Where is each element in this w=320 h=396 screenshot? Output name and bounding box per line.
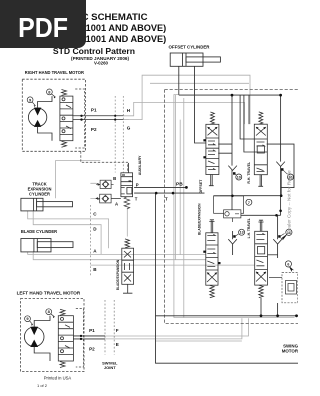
plunger above xyxy=(209,220,214,233)
svg-text:V-0260: V-0260 xyxy=(94,61,108,66)
wire rh feed vertical xyxy=(244,95,254,152)
stem below xyxy=(209,175,214,186)
wire crossover left x232 xyxy=(231,95,233,215)
node swivel joint mid line xyxy=(89,205,91,276)
node dot gallery right xyxy=(279,94,282,97)
cylinder CYL2 track expansion xyxy=(21,198,73,211)
svg-text:T: T xyxy=(165,197,168,202)
svg-text:B: B xyxy=(93,267,97,272)
wire swing stub xyxy=(277,303,279,316)
wire offset return xyxy=(150,82,249,84)
svg-text:OFFSET: OFFSET xyxy=(199,179,203,194)
svg-text:9: 9 xyxy=(26,316,29,321)
node dot p2 xyxy=(80,118,82,120)
wire vertical x180 xyxy=(179,120,181,255)
wire y195 gallery xyxy=(220,170,281,196)
node circled 9 rh xyxy=(27,97,35,107)
svg-text:BLADE CYLINDER: BLADE CYLINDER xyxy=(21,229,57,234)
spring top xyxy=(62,90,67,96)
node dot t1 xyxy=(155,192,158,195)
plunger above xyxy=(258,220,263,231)
svg-text:P: P xyxy=(136,182,139,187)
node aux dashed step xyxy=(81,151,128,171)
svg-text:Printed in USA: Printed in USA xyxy=(44,375,72,380)
check valve CV2 A xyxy=(96,194,121,203)
stem below xyxy=(258,175,263,187)
wire motor p1 line xyxy=(73,115,123,117)
spring below xyxy=(210,285,214,298)
wire H line xyxy=(123,102,244,124)
svg-text:BLADE/EXPANSION: BLADE/EXPANSION xyxy=(116,259,120,290)
spring below xyxy=(259,285,263,298)
wire offset cyl cap line xyxy=(178,66,180,95)
wire y195 left extension xyxy=(214,195,220,197)
wire lower gray line xyxy=(90,264,254,266)
valve V9 relief xyxy=(214,196,244,222)
svg-text:JOINT: JOINT xyxy=(104,365,116,370)
node swivel joint upper pair xyxy=(115,96,123,173)
node dot swivel p2 xyxy=(114,119,116,121)
node circled 9 lh xyxy=(25,316,33,326)
svg-text:RIGHT HAND TRAVEL MOTOR: RIGHT HAND TRAVEL MOTOR xyxy=(25,70,84,75)
svg-text:1 of 2: 1 of 2 xyxy=(37,383,48,388)
svg-text:F: F xyxy=(116,328,119,333)
node dot y315a xyxy=(276,314,279,317)
svg-text:P2: P2 xyxy=(89,346,95,351)
wire offset work port lines xyxy=(218,144,232,153)
valve V8 lh travel section xyxy=(255,220,268,297)
wire offset cyl rod line xyxy=(195,66,206,143)
valve V4 expansion select xyxy=(122,239,134,293)
node dot f xyxy=(80,335,82,337)
node dot y315b xyxy=(295,314,298,317)
node circled 8 lh xyxy=(46,309,55,318)
svg-text:8: 8 xyxy=(48,309,51,314)
node circled 6 xyxy=(285,261,291,267)
svg-text:A: A xyxy=(93,249,97,254)
svg-text:13: 13 xyxy=(240,231,244,235)
node circled 10 left xyxy=(236,174,242,180)
cylinder CYL3 blade xyxy=(21,239,73,252)
svg-text:E: E xyxy=(116,342,119,347)
spring above xyxy=(210,112,214,124)
wire lh motor f line xyxy=(73,335,105,337)
svg-text:AUXILIARY: AUXILIARY xyxy=(138,155,142,175)
svg-text:C: C xyxy=(93,212,97,217)
spring bottom xyxy=(62,141,67,147)
svg-text:P1: P1 xyxy=(89,328,95,333)
motor M1 right travel xyxy=(28,96,52,141)
svg-text:6: 6 xyxy=(287,262,289,266)
svg-text:LEFT HAND TRAVEL MOTOR: LEFT HAND TRAVEL MOTOR xyxy=(17,291,81,296)
check valve D3 xyxy=(228,231,238,255)
check valve CV1 B xyxy=(96,180,113,188)
valve V3 auxiliary xyxy=(121,173,133,209)
svg-text:B: B xyxy=(113,176,116,181)
svg-text:R.H. TRAVEL: R.H. TRAVEL xyxy=(247,161,251,184)
node dot swivel p1 xyxy=(114,115,116,117)
node valve bank enclosure xyxy=(165,90,298,324)
wire rh work port line xyxy=(267,144,294,188)
svg-text:G: G xyxy=(127,126,131,131)
svg-text:9: 9 xyxy=(29,97,32,102)
PDF badge overlay xyxy=(0,0,86,48)
wire top gallery y95 xyxy=(179,94,281,96)
side tick marks xyxy=(203,139,206,141)
svg-text:P1: P1 xyxy=(91,108,97,113)
node rh inner dashed bracket xyxy=(75,89,84,148)
wire rh feed vertical3 xyxy=(240,95,254,139)
node dot t2 xyxy=(172,192,175,195)
node swivel joint lower box xyxy=(105,300,114,355)
svg-text:7: 7 xyxy=(248,201,250,205)
node lh inner dashed bracket xyxy=(76,309,84,368)
node dot relief top xyxy=(231,195,234,198)
wire D line xyxy=(33,211,101,254)
svg-text:BLADE/EXPANSION: BLADE/EXPANSION xyxy=(198,203,202,235)
check valve D4 xyxy=(268,215,285,258)
svg-text:L.H. TRAVEL: L.H. TRAVEL xyxy=(247,218,251,238)
wire lower gallery y315 xyxy=(156,298,299,316)
node dot e xyxy=(80,338,82,340)
svg-text:A: A xyxy=(115,201,118,206)
check valve D1 xyxy=(228,166,237,176)
wire A line xyxy=(28,252,206,254)
wire motor p2 line xyxy=(73,119,123,121)
spring below aux xyxy=(124,197,130,209)
check valve D2 xyxy=(276,162,287,175)
wire gray frame around valve bank xyxy=(174,95,295,318)
node swing dashed box xyxy=(282,273,298,303)
node circled 8 rh xyxy=(47,89,56,98)
wire G line xyxy=(123,75,250,124)
svg-text:H: H xyxy=(127,108,131,113)
wire track rod line xyxy=(55,161,100,199)
svg-text:T: T xyxy=(135,197,138,202)
wire C line xyxy=(28,211,109,248)
wire tank line xyxy=(156,193,299,363)
valve V2 lh motor block xyxy=(58,309,73,367)
svg-text:PB: PB xyxy=(176,181,183,187)
wire crossover right x281 xyxy=(280,95,282,215)
wire check lead B xyxy=(90,183,96,198)
node lh motor dashed box xyxy=(21,299,84,372)
svg-text:OFFSET CYLINDER: OFFSET CYLINDER xyxy=(169,45,211,50)
wire mid gallery y215 xyxy=(232,214,281,216)
svg-text:Dealer Copy -- Not for Resale: Dealer Copy -- Not for Resale xyxy=(287,170,293,234)
node dot p1 xyxy=(80,115,82,117)
node circled 13 xyxy=(239,229,245,235)
motor M2 left travel xyxy=(24,316,50,361)
valve V6 rh travel section xyxy=(254,112,267,186)
wire aux to expansion link xyxy=(126,209,128,237)
wire E long line xyxy=(81,318,242,339)
wire pb line xyxy=(134,186,186,188)
svg-text:8: 8 xyxy=(48,89,51,94)
svg-text:10: 10 xyxy=(237,176,241,180)
node circled 7 xyxy=(246,199,252,205)
wire vertical x175 xyxy=(174,95,176,260)
node dot gallery left xyxy=(231,94,234,97)
wire third bottom line xyxy=(156,340,242,342)
spring above xyxy=(125,239,130,248)
node dot y315c xyxy=(260,314,263,317)
svg-text:D: D xyxy=(93,226,97,231)
node dot y195 xyxy=(280,194,283,197)
svg-text:CYLINDER: CYLINDER xyxy=(29,192,50,197)
node circled 10 right xyxy=(288,174,294,180)
cylinder CYL1 offset xyxy=(170,53,220,66)
valve V5 offset section xyxy=(203,112,219,186)
node rh motor dashed box xyxy=(22,79,85,151)
wire F long line xyxy=(81,318,249,336)
node circled 16 xyxy=(286,229,292,235)
spring above xyxy=(259,112,263,124)
node dot pb xyxy=(185,186,188,189)
svg-text:MOTOR: MOTOR xyxy=(282,349,298,354)
wire rh feed vertical2 xyxy=(248,95,250,124)
node dot y215 xyxy=(275,214,278,217)
wire aux feed xyxy=(127,163,129,173)
node dot y211 xyxy=(279,210,282,213)
wire B line xyxy=(33,252,206,260)
svg-text:P2: P2 xyxy=(91,127,97,132)
wire gray inner vertical xyxy=(183,98,185,318)
wire t line xyxy=(134,192,204,194)
wire lh motor e line xyxy=(73,338,105,340)
valve V7 blade-expansion section xyxy=(203,220,220,298)
valve V10 swing section xyxy=(269,278,297,295)
valve V1 rh motor block xyxy=(60,90,73,148)
X arrows top box xyxy=(208,127,218,135)
